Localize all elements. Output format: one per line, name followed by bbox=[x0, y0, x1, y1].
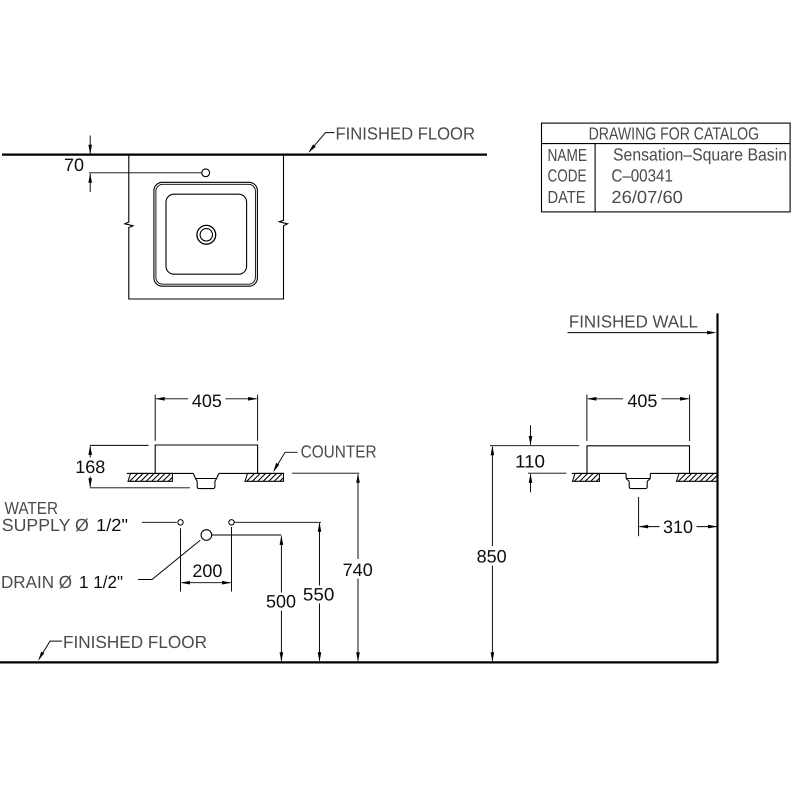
dimension 550 line with arrows bbox=[318, 522, 322, 662]
dimension 405 left extension line (front) bbox=[154, 395, 156, 441]
label FINISHED FLOOR (bottom) bbox=[63, 632, 207, 652]
label 1 1/2 inch bbox=[79, 572, 123, 592]
svg-text:70: 70 bbox=[64, 155, 84, 175]
basin body (front view) bbox=[155, 445, 257, 473]
dimension 110 lower arrow bbox=[529, 473, 533, 492]
counter hatch left (front view) bbox=[128, 473, 172, 481]
counter top line (side view) bbox=[572, 472, 718, 474]
dimension 740 line with arrows bbox=[356, 473, 360, 662]
dimension text 110 bbox=[515, 451, 545, 471]
svg-text:850: 850 bbox=[477, 547, 507, 567]
dimension text 550 bbox=[303, 584, 335, 604]
arrow line to finished wall bbox=[568, 331, 717, 335]
leader from drain label to drain hole bbox=[138, 540, 200, 579]
svg-text:405: 405 bbox=[192, 391, 222, 411]
finished floor line (plan view, heavy) bbox=[2, 154, 487, 156]
svg-text:CODE: CODE bbox=[548, 165, 587, 185]
label FINISHED WALL bbox=[569, 311, 698, 331]
finished floor line (heavy) bbox=[0, 661, 718, 663]
dimension 168 bottom extension line bbox=[90, 487, 190, 489]
svg-text:110: 110 bbox=[515, 451, 545, 471]
dimension 110 upper arrow bbox=[529, 425, 533, 445]
svg-text:168: 168 bbox=[75, 457, 105, 477]
dimension 70 lower arrow bbox=[88, 173, 92, 192]
counter outline (plan view) with break symbols bbox=[125, 155, 288, 299]
dimension text 405 (side) bbox=[627, 391, 657, 411]
svg-text:SUPPLY Ø: SUPPLY Ø bbox=[2, 515, 89, 535]
title block header divider bbox=[542, 143, 791, 145]
svg-text:1 1/2": 1 1/2" bbox=[79, 572, 123, 592]
dimension 405 line with arrows (front) bbox=[155, 397, 257, 401]
title block border bbox=[542, 123, 791, 212]
counter hatch right (front view) bbox=[245, 473, 284, 481]
dimension 405 left extension line (side) bbox=[586, 395, 588, 441]
dimension 70 upper arrow bbox=[88, 136, 92, 155]
label COUNTER bbox=[301, 442, 377, 462]
dimension text 168 bbox=[75, 457, 105, 477]
title block label DATE bbox=[548, 187, 586, 207]
svg-text:405: 405 bbox=[627, 391, 657, 411]
leader to counter bbox=[273, 452, 297, 472]
svg-text:26/07/60: 26/07/60 bbox=[611, 187, 683, 207]
dimension 168 top extension line bbox=[90, 444, 149, 446]
svg-text:DATE: DATE bbox=[548, 187, 586, 207]
dimension 200 left extension line bbox=[180, 528, 182, 591]
label SUPPLY diameter bbox=[2, 515, 89, 535]
title block label NAME bbox=[548, 145, 588, 165]
svg-text:DRAWING FOR CATALOG: DRAWING FOR CATALOG bbox=[589, 123, 760, 143]
svg-text:FINISHED WALL: FINISHED WALL bbox=[569, 311, 698, 331]
dimension text 200 bbox=[192, 561, 222, 581]
drain tailpiece (front view) bbox=[197, 481, 215, 488]
dimension 110 bottom extension line bbox=[528, 472, 566, 474]
dimension 405 line with arrows (side) bbox=[587, 397, 690, 401]
leader to finished floor (bottom) bbox=[38, 641, 62, 661]
label WATER bbox=[5, 498, 59, 518]
counter top line (front view) bbox=[127, 472, 284, 474]
svg-text:NAME: NAME bbox=[548, 145, 588, 165]
dimension text 740 bbox=[343, 560, 373, 580]
leader to finished floor line (top) bbox=[308, 133, 334, 153]
dimension 850 line with arrows bbox=[491, 446, 495, 662]
dimension 110 top extension line bbox=[490, 445, 579, 447]
counter hatch left (side view) bbox=[573, 473, 600, 481]
svg-text:COUNTER: COUNTER bbox=[301, 442, 377, 462]
title block label CODE bbox=[548, 165, 587, 185]
counter hatch right (side view) bbox=[677, 473, 718, 481]
svg-text:200: 200 bbox=[192, 561, 222, 581]
faucet hole (plan view) bbox=[202, 169, 210, 177]
dimension 200 right extension line bbox=[231, 527, 233, 592]
svg-text:500: 500 bbox=[266, 592, 296, 612]
drain outer circle (plan view) bbox=[197, 225, 216, 244]
svg-text:740: 740 bbox=[343, 560, 373, 580]
basin body (side view) bbox=[587, 446, 690, 474]
water supply line to 550 dimension bbox=[234, 521, 321, 523]
dimension text 310 bbox=[663, 517, 693, 537]
title text DRAWING FOR CATALOG bbox=[589, 123, 760, 143]
dimension 500 line with arrows bbox=[280, 535, 284, 661]
basin bowl (plan view) bbox=[166, 194, 247, 274]
basin rim inner edge (plan view) bbox=[156, 184, 256, 284]
drain tailpiece (side view) bbox=[629, 481, 647, 488]
dimension 200 line with arrows bbox=[181, 581, 232, 585]
drain line to 500 dimension bbox=[212, 534, 282, 536]
dimension 740 extension line bbox=[292, 472, 359, 474]
svg-text:FINISHED FLOOR: FINISHED FLOOR bbox=[63, 632, 207, 652]
finished wall line (heavy) bbox=[716, 313, 718, 663]
dimension text 70 bbox=[64, 155, 84, 175]
dimension 405 right extension line (front) bbox=[257, 395, 259, 441]
svg-text:C–00341: C–00341 bbox=[611, 165, 673, 185]
svg-text:DRAIN Ø: DRAIN Ø bbox=[1, 572, 72, 592]
drain hole (front view) bbox=[201, 530, 212, 541]
svg-text:1/2": 1/2" bbox=[96, 515, 128, 535]
svg-text:FINISHED FLOOR: FINISHED FLOOR bbox=[336, 124, 476, 144]
water supply stub line bbox=[142, 521, 177, 523]
dimension 310 extension line (drain centerline) bbox=[638, 497, 640, 536]
water supply hole right bbox=[229, 520, 234, 525]
label DRAIN diameter bbox=[1, 572, 72, 592]
water supply hole left bbox=[178, 520, 183, 525]
dimension text 850 bbox=[477, 547, 507, 567]
drain inner circle (plan view) bbox=[200, 229, 212, 241]
drain flange (front view) bbox=[193, 474, 218, 482]
basin outer rim (plan view) bbox=[154, 182, 258, 286]
title block column divider bbox=[594, 144, 596, 212]
title block value 26/07/60 bbox=[611, 187, 683, 207]
dimension text 500 bbox=[266, 592, 296, 612]
dimension text 405 (front) bbox=[192, 391, 222, 411]
dimension 310 line with arrows bbox=[639, 525, 718, 529]
dimension 70 extension line bbox=[89, 172, 202, 174]
label 1/2 inch bbox=[96, 515, 128, 535]
label FINISHED FLOOR (top) bbox=[336, 124, 476, 144]
title block value Sensation-Square Basin bbox=[613, 145, 787, 165]
svg-text:550: 550 bbox=[303, 584, 335, 604]
svg-text:310: 310 bbox=[663, 517, 693, 537]
svg-text:Sensation–Square Basin: Sensation–Square Basin bbox=[613, 145, 787, 165]
drain flange (side view) bbox=[626, 474, 650, 482]
dimension 405 right extension line (side) bbox=[689, 395, 691, 441]
title block value C-00341 bbox=[611, 165, 673, 185]
dimension 168 line with arrows bbox=[88, 445, 92, 487]
